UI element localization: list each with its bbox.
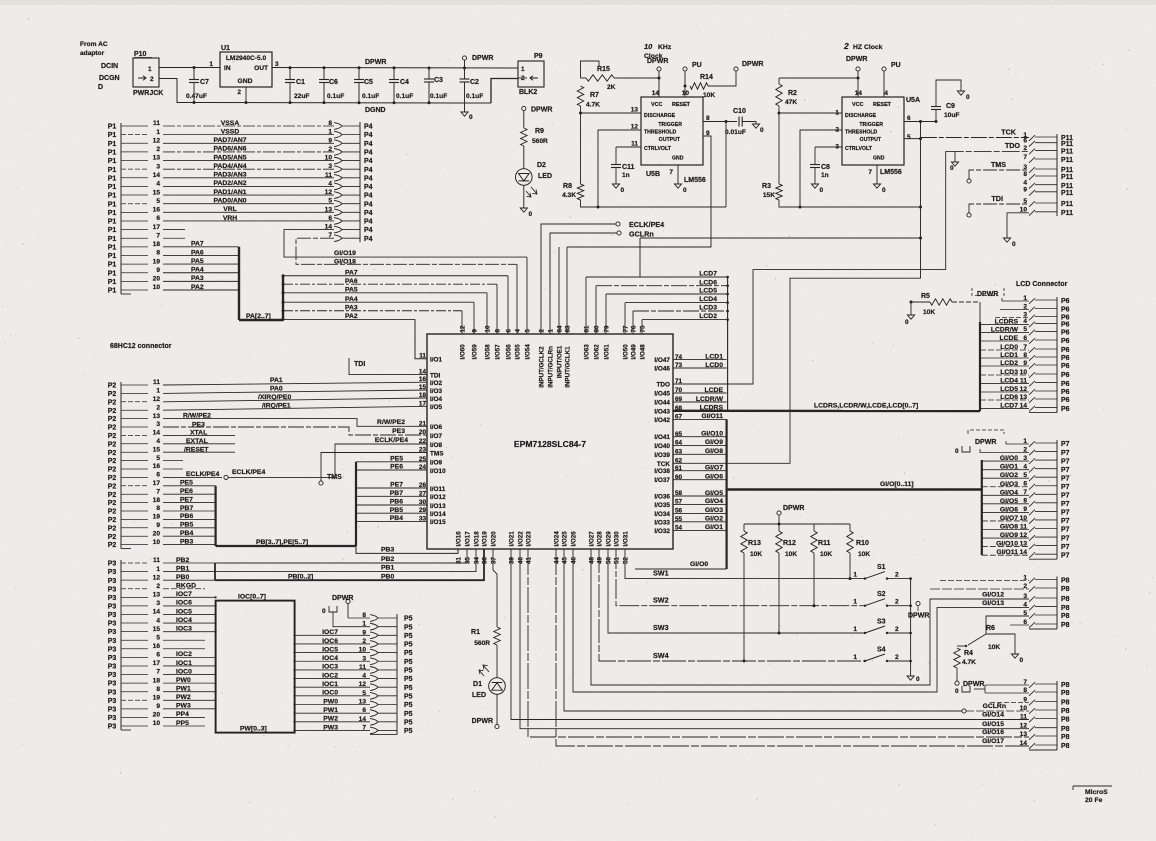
svg-text:I/O43: I/O43 bbox=[654, 408, 670, 415]
svg-text:I/O54: I/O54 bbox=[525, 344, 532, 360]
svg-text:PE6: PE6 bbox=[390, 464, 403, 471]
svg-text:PA7: PA7 bbox=[345, 269, 358, 276]
resistor R12 bbox=[776, 531, 782, 553]
connector P6 pin 4 bbox=[1029, 322, 1035, 328]
bus GI/O collector vertical bbox=[725, 419, 727, 569]
svg-text:10K: 10K bbox=[988, 644, 1000, 651]
svg-text:10: 10 bbox=[153, 539, 161, 546]
wire PB5 from P2 bbox=[163, 527, 216, 529]
wire GI/O11 from CPLD pin 67 bbox=[673, 418, 727, 420]
wire net PA6 to CPLD bbox=[282, 283, 285, 286]
svg-text:S2: S2 bbox=[877, 591, 886, 598]
svg-text:26: 26 bbox=[419, 482, 427, 489]
svg-text:I/O60: I/O60 bbox=[460, 344, 467, 360]
wire trigger to threshold node bbox=[725, 122, 727, 208]
connector P5 pin 11 bbox=[370, 667, 378, 674]
LED D2 bbox=[516, 169, 533, 186]
svg-text:P2: P2 bbox=[108, 475, 117, 482]
svg-text:18: 18 bbox=[153, 677, 161, 684]
svg-text:P6: P6 bbox=[1061, 347, 1070, 354]
wire TDI from top bbox=[349, 366, 427, 375]
svg-text:9: 9 bbox=[156, 267, 160, 274]
svg-text:1: 1 bbox=[853, 654, 857, 661]
svg-text:P3: P3 bbox=[108, 698, 117, 705]
svg-text:PAD3/AN3: PAD3/AN3 bbox=[213, 172, 246, 179]
wire P8 pin6 bbox=[1010, 624, 1029, 626]
svg-text:I/O37: I/O37 bbox=[654, 477, 670, 484]
wire P10 pin1 to U1 IN bbox=[159, 67, 220, 69]
wire net TCK bbox=[921, 137, 1029, 139]
svg-text:1: 1 bbox=[853, 571, 857, 578]
capacitor C11 bbox=[615, 147, 617, 164]
bus PB[0..2] bbox=[214, 563, 216, 580]
wire GI/O0 net bbox=[635, 568, 727, 570]
svg-text:P8: P8 bbox=[1061, 700, 1070, 707]
svg-text:D2: D2 bbox=[537, 162, 546, 169]
svg-text:2: 2 bbox=[156, 583, 160, 590]
svg-text:SW3: SW3 bbox=[653, 623, 669, 632]
svg-text:45: 45 bbox=[562, 557, 569, 564]
wire TDO route to CPLD bbox=[673, 151, 946, 384]
svg-text:15: 15 bbox=[153, 446, 161, 453]
svg-text:DPWR: DPWR bbox=[742, 61, 763, 68]
svg-text:9: 9 bbox=[1023, 187, 1027, 194]
svg-text:LCD3: LCD3 bbox=[699, 305, 717, 312]
wire PW3 into IOC bus bbox=[163, 708, 216, 710]
svg-text:P5: P5 bbox=[404, 650, 413, 657]
svg-text:PA7: PA7 bbox=[191, 241, 204, 248]
svg-text:14: 14 bbox=[153, 172, 161, 179]
svg-text:GI/O12: GI/O12 bbox=[982, 591, 1004, 598]
wire PW1 from IOC bus to P5 bbox=[295, 712, 370, 714]
terminal DPWR above U5B bbox=[657, 67, 661, 71]
wire IOC4 into IOC bus bbox=[163, 622, 216, 624]
svg-text:P7: P7 bbox=[1061, 535, 1070, 542]
svg-text:47K: 47K bbox=[785, 99, 797, 106]
wire P2 pin16 stub bbox=[163, 468, 183, 470]
capacitor C6 bbox=[323, 66, 326, 69]
svg-text:GI/O4: GI/O4 bbox=[705, 498, 723, 505]
svg-text:11: 11 bbox=[1020, 713, 1027, 720]
capacitor C7 bbox=[193, 66, 196, 69]
wire C11 to ground bbox=[615, 168, 617, 185]
svg-text:P8: P8 bbox=[1061, 622, 1070, 629]
svg-text:34: 34 bbox=[474, 557, 481, 564]
svg-text:0.1uF: 0.1uF bbox=[430, 93, 447, 100]
svg-text:I/O2: I/O2 bbox=[430, 380, 443, 387]
svg-text:LM556: LM556 bbox=[684, 177, 706, 184]
svg-text:GND: GND bbox=[672, 156, 684, 162]
wire net TDO bbox=[946, 150, 1029, 152]
svg-text:PA5: PA5 bbox=[345, 286, 358, 293]
svg-text:P6: P6 bbox=[1061, 298, 1070, 305]
svg-text:I/O7: I/O7 bbox=[430, 433, 443, 440]
bus PB[3..7] PE[5..7] vertical A bbox=[215, 486, 217, 546]
svg-text:U1: U1 bbox=[221, 45, 230, 52]
svg-text:P3: P3 bbox=[108, 655, 117, 662]
svg-text:PW[0..3]: PW[0..3] bbox=[240, 725, 267, 732]
connector P11 pin 9 bbox=[1029, 190, 1035, 196]
wire PE5 from P2 bbox=[163, 485, 216, 487]
svg-text:C1: C1 bbox=[296, 79, 305, 86]
svg-text:RESET: RESET bbox=[873, 102, 892, 108]
terminal GCLRn at P8 bbox=[962, 709, 966, 713]
wire GI/O3 from CPLD pin 56 bbox=[673, 512, 727, 514]
svg-text:24: 24 bbox=[419, 464, 427, 471]
svg-text:2: 2 bbox=[150, 76, 154, 83]
svg-text:0: 0 bbox=[1020, 657, 1024, 664]
wire CTRLVOLT pin11 bbox=[616, 146, 641, 148]
svg-text:3: 3 bbox=[328, 163, 332, 170]
wire P1 pin17 stub bbox=[163, 229, 185, 231]
wire stub OE1 bbox=[558, 247, 560, 334]
svg-text:9: 9 bbox=[156, 522, 160, 529]
connector P8 pin 12 bbox=[1029, 726, 1035, 732]
svg-text:P7: P7 bbox=[1061, 510, 1070, 517]
svg-text:LCD7: LCD7 bbox=[699, 271, 717, 278]
svg-text:62: 62 bbox=[675, 458, 683, 465]
svg-text:LCD6: LCD6 bbox=[699, 279, 717, 286]
svg-text:I/O15: I/O15 bbox=[430, 519, 446, 526]
wire net TDI bbox=[969, 204, 1029, 213]
wire R15 to VCC rail bbox=[614, 77, 659, 79]
svg-text:0: 0 bbox=[760, 127, 764, 134]
svg-text:16: 16 bbox=[153, 463, 161, 470]
svg-text:P2: P2 bbox=[108, 458, 117, 465]
terminal ECLK/PE4 node bbox=[224, 475, 228, 479]
svg-text:C10: C10 bbox=[733, 108, 746, 115]
svg-text:GCLRn: GCLRn bbox=[629, 230, 654, 239]
connector P7 pin 10 bbox=[1029, 518, 1035, 524]
svg-text:14: 14 bbox=[855, 90, 863, 97]
svg-text:/XIRQ/PE0: /XIRQ/PE0 bbox=[258, 394, 291, 401]
wire DPWR to P7 pin1 bbox=[1006, 441, 1029, 444]
svg-text:10K: 10K bbox=[858, 551, 870, 558]
svg-text:0.1uF: 0.1uF bbox=[396, 93, 413, 100]
svg-text:1: 1 bbox=[521, 66, 525, 73]
svg-text:P1: P1 bbox=[108, 132, 117, 139]
svg-text:14: 14 bbox=[419, 369, 427, 376]
svg-text:P5: P5 bbox=[404, 676, 413, 683]
wire net PA2 to CPLD bbox=[282, 318, 285, 321]
connector P7 bracket bbox=[1056, 440, 1058, 559]
svg-text:CTRLVOLT: CTRLVOLT bbox=[845, 146, 873, 152]
connector P7 pin 12 bbox=[1029, 535, 1035, 541]
svg-text:TDI: TDI bbox=[991, 194, 1003, 203]
svg-text:GI/O9: GI/O9 bbox=[1000, 532, 1018, 539]
svg-text:GI/O2: GI/O2 bbox=[1000, 472, 1018, 479]
svg-text:0: 0 bbox=[1012, 241, 1016, 248]
svg-text:DPWR: DPWR bbox=[975, 439, 996, 446]
svg-text:6: 6 bbox=[907, 115, 911, 122]
svg-text:LCD0: LCD0 bbox=[1000, 344, 1018, 351]
svg-text:I/O38: I/O38 bbox=[654, 468, 670, 475]
svg-text:P8: P8 bbox=[1061, 717, 1070, 724]
svg-text:P3: P3 bbox=[108, 604, 117, 611]
svg-text:13: 13 bbox=[153, 592, 161, 599]
svg-text:23: 23 bbox=[419, 447, 427, 454]
wire LCDE to P6 bbox=[980, 340, 1029, 342]
svg-text:PAD6/AN6: PAD6/AN6 bbox=[213, 146, 246, 153]
svg-text:15K: 15K bbox=[763, 192, 775, 199]
wire P6 pin2 bbox=[1000, 309, 1029, 311]
bus vertical at P6 bbox=[979, 322, 981, 411]
svg-text:19: 19 bbox=[153, 694, 161, 701]
svg-text:LCD1: LCD1 bbox=[705, 353, 723, 360]
svg-text:EPM7128SLC84-7: EPM7128SLC84-7 bbox=[514, 439, 586, 449]
svg-text:P2: P2 bbox=[108, 517, 117, 524]
svg-text:I/O10: I/O10 bbox=[430, 468, 446, 475]
svg-text:2: 2 bbox=[539, 329, 546, 333]
wire THRESHOLD pin12 bbox=[598, 130, 641, 207]
connector P6 pin 14 bbox=[1029, 406, 1035, 412]
svg-text:P2: P2 bbox=[108, 391, 117, 398]
svg-text:LCDE: LCDE bbox=[704, 387, 723, 394]
wire PA6 drop to CPLD top pin bbox=[496, 284, 498, 334]
svg-text:DPWR: DPWR bbox=[647, 58, 668, 65]
connector P8 pin 1 bbox=[1029, 578, 1035, 584]
connector P6 pin 11 bbox=[1029, 381, 1035, 387]
svg-text:R/W/PE2: R/W/PE2 bbox=[377, 419, 405, 426]
wire PB6 to CPLD bbox=[356, 504, 427, 506]
svg-text:PA3: PA3 bbox=[191, 275, 204, 282]
svg-text:I/O34: I/O34 bbox=[654, 511, 670, 518]
svg-text:GI/O0: GI/O0 bbox=[690, 561, 708, 568]
svg-text:S4: S4 bbox=[877, 647, 886, 654]
svg-text:2: 2 bbox=[895, 654, 899, 661]
svg-text:GI/O8: GI/O8 bbox=[1000, 524, 1018, 531]
wire LCD2 to P6 bbox=[980, 365, 1029, 367]
wire LCD0 to P6 bbox=[980, 349, 1029, 351]
svg-text:IN: IN bbox=[224, 65, 231, 72]
capacitor C3 bbox=[428, 67, 431, 70]
svg-text:I/O33: I/O33 bbox=[654, 519, 670, 526]
wire IOC7 into IOC bus bbox=[163, 596, 216, 598]
terminal PU above U5A bbox=[882, 67, 886, 71]
svg-text:P2: P2 bbox=[108, 534, 117, 541]
resistor R1 bbox=[494, 627, 500, 645]
svg-text:I/O40: I/O40 bbox=[654, 443, 670, 450]
svg-text:GI/O6: GI/O6 bbox=[1000, 506, 1018, 513]
svg-text:PE3: PE3 bbox=[192, 421, 205, 428]
wire net LCD3 bbox=[633, 310, 728, 312]
wire net ECLK/PE4 from P2 bbox=[163, 476, 222, 478]
wire GI/O1 from CPLD pin 54 bbox=[673, 529, 727, 531]
wire PB7 from P2 bbox=[163, 510, 216, 512]
ground 0 at P5 bbox=[333, 612, 370, 627]
svg-text:LCD4: LCD4 bbox=[699, 296, 717, 303]
wire PA4 from P1 bbox=[163, 272, 239, 274]
wire PE5 to CPLD bbox=[356, 461, 427, 463]
svg-text:P8: P8 bbox=[1061, 605, 1070, 612]
svg-text:GI/O14: GI/O14 bbox=[982, 712, 1004, 719]
wire 2Hz output bbox=[904, 138, 921, 140]
svg-text:P2: P2 bbox=[108, 416, 117, 423]
svg-text:R7: R7 bbox=[590, 92, 599, 99]
ground 0 below U5A bbox=[873, 184, 880, 188]
svg-text:10: 10 bbox=[153, 720, 161, 727]
svg-text:GI/O0: GI/O0 bbox=[1000, 455, 1018, 462]
svg-text:BLK2: BLK2 bbox=[519, 89, 537, 96]
svg-text:14: 14 bbox=[153, 430, 161, 437]
wire net PE3 bbox=[163, 427, 427, 435]
svg-text:/IRQ/PE1: /IRQ/PE1 bbox=[262, 402, 291, 409]
wire LCD7 drop to CPLD top pin bbox=[585, 277, 587, 334]
svg-text:HZ Clock: HZ Clock bbox=[853, 44, 883, 51]
svg-text:8: 8 bbox=[156, 250, 160, 257]
wire DPWR rail for pull-ups bbox=[778, 515, 780, 524]
svg-text:0: 0 bbox=[820, 187, 824, 194]
svg-text:P4: P4 bbox=[364, 141, 373, 148]
svg-text:P3: P3 bbox=[108, 595, 117, 602]
svg-text:16: 16 bbox=[153, 643, 161, 650]
wire 10KHz output bbox=[567, 136, 711, 247]
ground 0 right of C10 bbox=[752, 124, 759, 128]
connector P8 pin 10 bbox=[1029, 708, 1035, 714]
terminal DPWR for R9 bbox=[522, 106, 526, 110]
svg-text:GI/O6: GI/O6 bbox=[705, 474, 723, 481]
connector P4 pin 1 bbox=[334, 131, 342, 138]
svg-text:GI/O7: GI/O7 bbox=[1000, 515, 1018, 522]
svg-text:GI/O10: GI/O10 bbox=[996, 541, 1018, 548]
connector P5 pin 9 bbox=[370, 632, 378, 639]
svg-text:DPWR: DPWR bbox=[472, 718, 493, 725]
wire GI/O14 net from I/O21 bbox=[511, 549, 1029, 720]
connector P6 pin 2 bbox=[1029, 307, 1035, 313]
svg-text:PB2: PB2 bbox=[381, 556, 394, 563]
svg-text:I/O44: I/O44 bbox=[654, 400, 670, 407]
wire 10KHz to CPLD GCLK1 bbox=[566, 247, 568, 334]
svg-text:P8: P8 bbox=[1061, 682, 1070, 689]
svg-text:P5: P5 bbox=[404, 702, 413, 709]
svg-text:GI/O11: GI/O11 bbox=[701, 413, 723, 420]
svg-text:GCLRn: GCLRn bbox=[983, 703, 1006, 710]
wire R8 bottom to threshold node bbox=[581, 200, 727, 207]
wire PE7 from P2 bbox=[163, 502, 216, 504]
svg-text:I/O39: I/O39 bbox=[654, 452, 670, 459]
wire R5 left node to ground bbox=[911, 301, 930, 303]
svg-text:I/O17: I/O17 bbox=[465, 531, 472, 547]
wire PE7 to CPLD bbox=[356, 487, 427, 489]
svg-text:INPUT/GCLK2: INPUT/GCLK2 bbox=[539, 346, 546, 388]
svg-text:PA2: PA2 bbox=[191, 284, 204, 291]
wire net VRL bbox=[163, 211, 334, 213]
svg-text:I/O6: I/O6 bbox=[430, 424, 443, 431]
svg-text:5: 5 bbox=[525, 329, 532, 333]
wire GCLRn to CPLD bbox=[550, 233, 617, 334]
svg-text:5: 5 bbox=[1023, 198, 1027, 205]
wire PB4 from P2 bbox=[163, 535, 216, 537]
wire DPWR rail U1 OUT to P9 bbox=[272, 67, 518, 70]
wire net R/W/PE2 bbox=[163, 419, 427, 427]
svg-text:0: 0 bbox=[882, 187, 886, 194]
svg-text:PAD5/AN5: PAD5/AN5 bbox=[213, 154, 246, 161]
connector P4 pin 8 bbox=[334, 123, 342, 130]
wire R4 to DPWR bbox=[956, 668, 958, 681]
wire R9 to D2 bbox=[523, 146, 525, 169]
connector P7 pin 6 bbox=[1029, 484, 1035, 490]
svg-text:P7: P7 bbox=[1061, 501, 1070, 508]
connector P11 pin 5 bbox=[1029, 201, 1035, 207]
svg-text:RESET: RESET bbox=[672, 102, 691, 108]
wire P8 pin8 to ground bracket bbox=[984, 685, 986, 693]
svg-text:1: 1 bbox=[156, 129, 160, 136]
svg-text:13: 13 bbox=[631, 107, 639, 114]
svg-text:DPWR: DPWR bbox=[963, 681, 984, 688]
svg-text:S3: S3 bbox=[877, 619, 886, 626]
svg-text:P5: P5 bbox=[404, 728, 413, 735]
svg-text:P6: P6 bbox=[1061, 330, 1070, 337]
svg-text:P10: P10 bbox=[134, 51, 147, 58]
svg-text:1: 1 bbox=[156, 388, 160, 395]
wire GI/O0 to P7 bbox=[982, 460, 1029, 462]
svg-text:2: 2 bbox=[895, 599, 899, 606]
svg-text:C11: C11 bbox=[622, 164, 635, 171]
svg-text:P8: P8 bbox=[1061, 613, 1070, 620]
svg-text:LCDR/W: LCDR/W bbox=[991, 326, 1019, 333]
wire SW1 net from I/O31 bbox=[625, 549, 865, 579]
svg-text:P7: P7 bbox=[1061, 475, 1070, 482]
connector P11 pin 10 bbox=[1029, 210, 1035, 216]
wire ECLK/PE4 to CPLD I/O8 bbox=[228, 444, 427, 477]
wire DISCHARGE pin13 bbox=[581, 112, 642, 114]
connector P8 bracket upper bbox=[1056, 577, 1058, 630]
svg-text:2K: 2K bbox=[607, 84, 616, 91]
svg-text:1n: 1n bbox=[622, 172, 630, 179]
bus PA[2..7] riser bbox=[282, 276, 284, 320]
wire net PAD7/AN7 bbox=[163, 142, 334, 144]
svg-text:LCDR/W: LCDR/W bbox=[696, 396, 724, 403]
svg-text:I/O31: I/O31 bbox=[623, 531, 630, 547]
svg-text:21: 21 bbox=[419, 420, 427, 427]
svg-text:4.7K: 4.7K bbox=[962, 659, 976, 666]
wire GI/O16 net from I/O23 bbox=[528, 549, 1029, 737]
wire GI/O9 to P7 bbox=[982, 537, 1029, 539]
connector P11 pin 1 bbox=[1029, 135, 1035, 141]
svg-text:P4: P4 bbox=[364, 219, 373, 226]
svg-text:6: 6 bbox=[156, 215, 160, 222]
wire CTRLVOLT pin3 U5A bbox=[815, 146, 842, 148]
svg-text:I/O18: I/O18 bbox=[474, 531, 481, 547]
resistor R14 bbox=[690, 83, 708, 89]
svg-text:I/O42: I/O42 bbox=[654, 417, 670, 424]
svg-text:P3: P3 bbox=[108, 561, 117, 568]
svg-text:P2: P2 bbox=[108, 483, 117, 490]
svg-text:GI/O9: GI/O9 bbox=[705, 439, 723, 446]
svg-text:19: 19 bbox=[153, 514, 161, 521]
wire IOC5 into IOC bus bbox=[163, 613, 216, 615]
svg-text:P3: P3 bbox=[108, 578, 117, 585]
svg-text:PU: PU bbox=[692, 62, 702, 69]
svg-text:PB1: PB1 bbox=[381, 565, 394, 572]
svg-text:P6: P6 bbox=[1061, 363, 1070, 370]
svg-text:13: 13 bbox=[325, 206, 333, 213]
wire P9 pin2 to DGND bbox=[518, 77, 527, 79]
wire TCK route to CPLD bbox=[673, 278, 921, 463]
capacitor C5 bbox=[358, 66, 361, 69]
svg-text:5: 5 bbox=[907, 134, 911, 141]
connector P4 pin 6 bbox=[334, 218, 342, 225]
svg-text:P9: P9 bbox=[534, 53, 543, 60]
connector P6 pin 12 bbox=[1029, 389, 1035, 395]
svg-text:1: 1 bbox=[853, 626, 857, 633]
terminal DPWR below R4 bbox=[955, 681, 959, 685]
svg-text:1: 1 bbox=[853, 599, 857, 606]
svg-text:7: 7 bbox=[156, 232, 160, 239]
bus GI/O[0..11] horizontal bbox=[727, 488, 982, 490]
connector P4 pin 5 bbox=[334, 200, 342, 207]
svg-text:P3: P3 bbox=[108, 672, 117, 679]
